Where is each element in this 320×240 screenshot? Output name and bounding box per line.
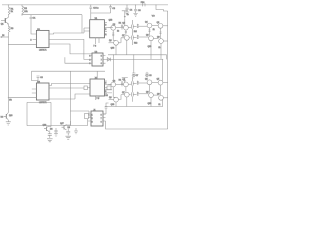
wire rail y59.4 bbox=[106, 58, 163, 60]
capacitor C12 with ground bbox=[65, 129, 71, 140]
wire feeds to lower cluster bbox=[113, 55, 115, 82]
capacitor C11 with ground bbox=[54, 128, 58, 136]
cluster vertical links bbox=[113, 30, 116, 40]
svg-text:C2 1u: C2 1u bbox=[93, 8, 98, 10]
wire bottom return bbox=[106, 121, 168, 129]
capacitor C7 with ground bbox=[132, 72, 138, 78]
wire Q5 to right bus bbox=[163, 25, 168, 27]
supply arrow top cluster bbox=[122, 11, 129, 26]
wire U1 out pin jog bbox=[49, 33, 84, 34]
resistor R4 small bbox=[119, 23, 124, 30]
svg-text:C6: C6 bbox=[40, 77, 43, 79]
svg-text:6: 6 bbox=[101, 121, 102, 123]
wire Q15 to right bus bbox=[163, 97, 167, 99]
op-amp U1 bbox=[36, 29, 49, 52]
svg-text:Q2B: Q2B bbox=[109, 19, 113, 21]
svg-text:R12: R12 bbox=[134, 43, 137, 45]
svg-text:1k: 1k bbox=[11, 11, 14, 13]
svg-text:C3: C3 bbox=[112, 8, 115, 10]
svg-text:D2: D2 bbox=[50, 129, 52, 131]
svg-text:6: 6 bbox=[101, 63, 102, 65]
svg-text:2k2: 2k2 bbox=[134, 31, 137, 33]
wire mid ladder bbox=[65, 57, 89, 63]
svg-text:2: 2 bbox=[89, 59, 90, 61]
diode D1 bbox=[107, 58, 110, 62]
svg-text:2: 2 bbox=[92, 118, 93, 120]
transistor array lower (copy of core) bbox=[108, 77, 163, 106]
svg-text:LM7171: LM7171 bbox=[39, 50, 47, 52]
svg-text:1k: 1k bbox=[117, 31, 119, 33]
svg-text:8: 8 bbox=[101, 56, 102, 58]
transformer X1 bbox=[90, 18, 105, 38]
svg-text:Q6: Q6 bbox=[109, 40, 112, 42]
wire q17 bbox=[67, 121, 71, 125]
U2 right routes bbox=[49, 84, 90, 86]
resistor R9 row1 bbox=[137, 24, 139, 28]
wire C1 to U1 pin1 bbox=[31, 22, 36, 35]
transistor Q18 bottom left bbox=[1, 113, 13, 121]
transistor Q9 (circle) bbox=[153, 37, 163, 44]
X1 bottom stubs bbox=[95, 38, 97, 44]
capacitor C6 marks bbox=[37, 76, 44, 80]
wire into X1 left bbox=[84, 28, 90, 33]
svg-text:C8: C8 bbox=[149, 75, 151, 77]
transistor Q2 (circle) bbox=[108, 24, 115, 30]
svg-text:5: 5 bbox=[105, 29, 106, 31]
resistor R7 series bbox=[85, 114, 89, 119]
transistor Q1 bbox=[1, 16, 9, 27]
svg-text:C7: C7 bbox=[136, 75, 138, 77]
capacitor C8 with ground bbox=[145, 72, 152, 78]
wire under U2 bbox=[27, 101, 51, 103]
svg-text:FB: FB bbox=[9, 99, 12, 101]
resistor R2 bbox=[22, 5, 29, 16]
dual gate bars row1 bbox=[131, 20, 133, 29]
transistor Q8 (circle) bbox=[129, 35, 153, 41]
wire Q9 to right bus bbox=[163, 40, 167, 42]
junction dots bbox=[8, 4, 163, 97]
svg-text:C1: C1 bbox=[33, 17, 36, 19]
svg-text:Q4: Q4 bbox=[145, 22, 148, 24]
svg-text:8: 8 bbox=[101, 114, 102, 116]
wire q16 bbox=[49, 123, 51, 127]
svg-text:3: 3 bbox=[89, 63, 90, 65]
svg-text:Q17: Q17 bbox=[60, 123, 64, 125]
transistor Q17 bottom bbox=[60, 123, 70, 130]
svg-text:Q3: Q3 bbox=[122, 22, 125, 24]
wire U1 pin2 stub bbox=[33, 38, 37, 40]
transistor Q3 (circle) bbox=[116, 22, 129, 30]
transistor Q5 (circle) bbox=[152, 22, 163, 28]
cluster feeds down bbox=[115, 45, 117, 55]
svg-text:10k: 10k bbox=[24, 11, 28, 13]
resistor ticks on links bbox=[112, 33, 114, 36]
wire U1 pin6 route bbox=[49, 39, 84, 48]
port IN circle bbox=[1, 36, 2, 37]
svg-text:7 8: 7 8 bbox=[93, 45, 96, 47]
svg-text:Q9: Q9 bbox=[157, 37, 160, 39]
U2 left stubs bbox=[32, 89, 37, 93]
svg-text:R3: R3 bbox=[11, 28, 15, 30]
svg-text:3: 3 bbox=[92, 121, 93, 123]
wire U1 pin5 route bbox=[49, 44, 92, 54]
wire right bus bbox=[167, 11, 169, 129]
svg-text:R4: R4 bbox=[119, 23, 121, 25]
wire bottom cluster rail bbox=[105, 106, 163, 108]
ground right small bbox=[74, 128, 78, 134]
wire bus to U1 pin3 bbox=[8, 43, 36, 45]
svg-text:FB1: FB1 bbox=[141, 2, 146, 4]
wire vertical x82 down bbox=[81, 15, 83, 33]
X2 bottom stubs bbox=[96, 96, 99, 100]
svg-text:D4: D4 bbox=[1, 116, 3, 118]
supply arrow lower cluster bbox=[122, 78, 128, 83]
ferrite bead FB1 inline bbox=[141, 2, 146, 6]
capacitor C10 with ground bbox=[47, 131, 53, 142]
wire Q3 to Q4 bbox=[128, 26, 131, 28]
capacitor C1 bbox=[30, 15, 37, 22]
wire IC2 top feed bbox=[32, 71, 39, 83]
dual gate bars row2 bbox=[131, 29, 133, 40]
wire rail y54.8 bbox=[108, 55, 167, 60]
svg-text:1k: 1k bbox=[153, 29, 155, 31]
svg-text:7: 7 bbox=[101, 59, 102, 61]
svg-text:C4: C4 bbox=[130, 9, 133, 11]
X1 right pin stubs bbox=[104, 22, 107, 24]
svg-text:Q16: Q16 bbox=[43, 125, 47, 127]
svg-text:6: 6 bbox=[105, 34, 106, 36]
resistor R3 emitter bbox=[8, 26, 14, 32]
resistor R6 series bbox=[105, 86, 112, 97]
svg-text:VO: VO bbox=[152, 16, 155, 18]
transistor Q16 bottom bbox=[43, 125, 53, 132]
X2 top feed bbox=[96, 71, 98, 79]
wire long mid rail bbox=[32, 70, 106, 72]
op-amp U2 bbox=[36, 81, 49, 104]
svg-text:3: 3 bbox=[105, 82, 106, 84]
wire x83.9 to box bbox=[84, 49, 89, 60]
ground left bbox=[6, 120, 11, 125]
terminal right bbox=[156, 5, 168, 11]
capacitor C4 with ground bbox=[125, 5, 133, 15]
svg-text:3: 3 bbox=[105, 24, 106, 26]
wire bus to U2 bbox=[8, 96, 36, 98]
svg-text:1k: 1k bbox=[158, 47, 160, 49]
transistor Q4 (circle) bbox=[145, 22, 152, 28]
svg-text:Q5: Q5 bbox=[157, 22, 160, 24]
svg-text:Q7: Q7 bbox=[122, 35, 125, 37]
wire R2 bottom to feedback rail bbox=[22, 14, 82, 17]
svg-text:1: 1 bbox=[89, 56, 90, 58]
transistor Q7 (circle) bbox=[118, 35, 129, 43]
resistor R5 series bbox=[84, 86, 90, 90]
svg-text:Q2: Q2 bbox=[113, 24, 116, 26]
svg-text:Q8B: Q8B bbox=[148, 46, 152, 48]
transistor Q6 (circle) bbox=[109, 40, 119, 45]
connector J1 (small box2) bbox=[88, 109, 106, 126]
svg-text:V+: V+ bbox=[127, 14, 129, 16]
wire X1 top tap bbox=[91, 12, 111, 14]
cluster2 feeds down bbox=[115, 102, 117, 107]
svg-text:Q1: Q1 bbox=[1, 24, 5, 26]
svg-text:C5: C5 bbox=[138, 10, 141, 12]
svg-text:2: 2 bbox=[30, 39, 32, 41]
capacitor C3 bbox=[109, 5, 116, 13]
resistor R10 row2 bbox=[137, 35, 139, 39]
svg-text:7: 7 bbox=[101, 118, 102, 120]
X2 right stubs bbox=[105, 81, 113, 94]
wire VCC top bus bbox=[2, 4, 168, 6]
comparator U3 (small box1) bbox=[89, 51, 106, 66]
transistor array core bbox=[108, 20, 163, 49]
wire left vertical bus bbox=[7, 32, 9, 113]
capacitor C5 with ground bbox=[133, 5, 141, 16]
svg-text:Q18: Q18 bbox=[9, 115, 12, 117]
svg-text:Q8: Q8 bbox=[146, 35, 149, 37]
svg-text:7 8: 7 8 bbox=[96, 98, 99, 100]
svg-text:1: 1 bbox=[92, 114, 93, 116]
capacitor C2 bbox=[89, 5, 98, 20]
svg-text:R6: R6 bbox=[105, 95, 107, 97]
svg-text:Q6B: Q6B bbox=[111, 47, 115, 49]
wire input node bbox=[1, 36, 9, 38]
resistor R1 bbox=[8, 5, 14, 16]
wire Q12 to right bus bbox=[163, 82, 168, 84]
svg-text:D3: D3 bbox=[68, 127, 70, 129]
capacitor C9 bbox=[103, 103, 109, 114]
transformer X2 bbox=[90, 77, 105, 96]
